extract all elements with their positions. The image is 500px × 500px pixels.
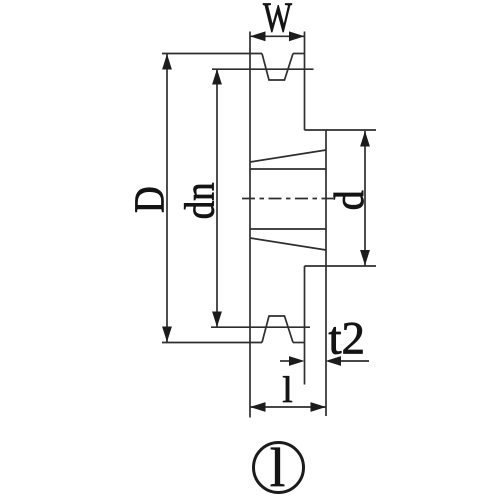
bore taper top slant	[250, 150, 326, 162]
top V-groove	[262, 54, 293, 81]
rim top surface right of groove	[293, 53, 305, 55]
svg-text:l: l	[282, 370, 292, 411]
bore top line	[250, 168, 326, 170]
t2 dimension tail left	[280, 360, 292, 362]
rim right face extension line for t2	[304, 343, 306, 385]
balloon circle 1	[254, 443, 304, 493]
rim right face upper	[304, 54, 306, 131]
svg-text:l: l	[270, 437, 285, 498]
rim top surface left of groove (with D top extension line)	[162, 53, 262, 55]
W arrowhead right	[289, 31, 305, 41]
svg-text:t2: t2	[329, 313, 366, 365]
rim bottom surface left of groove (with D bottom extension line)	[162, 342, 262, 344]
svg-text:dn: dn	[176, 182, 223, 219]
D arrowhead top	[162, 54, 172, 70]
W dimension line	[250, 35, 305, 37]
svg-text:W: W	[263, 0, 292, 41]
W extension line left	[249, 32, 251, 54]
pulley left face	[249, 54, 251, 343]
bore taper bottom slant	[250, 238, 326, 250]
left face extension line for l	[249, 343, 251, 418]
bore bottom line	[250, 228, 326, 230]
d arrowhead top	[360, 131, 370, 147]
dn top extension line	[212, 68, 314, 70]
hub face extension line for t2 and l	[325, 266, 327, 416]
dn arrowhead top	[212, 69, 222, 85]
D arrowhead bottom	[162, 327, 172, 343]
l dimension line	[250, 406, 326, 408]
hub top step (with d top extension line)	[305, 129, 377, 131]
bottom V-groove	[262, 316, 293, 343]
W arrowhead left	[250, 31, 266, 41]
dn bottom extension line	[211, 326, 310, 328]
hub bottom step (with d bottom extension line)	[305, 265, 377, 267]
l arrowhead right	[311, 402, 327, 412]
rim right face lower	[304, 266, 306, 343]
center line	[242, 198, 333, 200]
d dimension line	[364, 131, 366, 266]
l arrowhead left	[250, 402, 266, 412]
W extension line right	[304, 32, 306, 54]
D dimension line	[166, 54, 168, 342]
dn dimension line	[216, 69, 218, 327]
t2 dimension tail right	[339, 360, 369, 362]
t2 arrowhead right (points left)	[326, 356, 342, 366]
hub outer face	[325, 130, 327, 266]
svg-text:d: d	[325, 190, 372, 210]
dn arrowhead bottom	[212, 312, 222, 328]
d arrowhead bottom	[360, 250, 370, 266]
t2 arrowhead left (points right)	[289, 356, 305, 366]
rim bottom surface right of groove	[293, 342, 305, 344]
svg-text:D: D	[126, 186, 173, 213]
